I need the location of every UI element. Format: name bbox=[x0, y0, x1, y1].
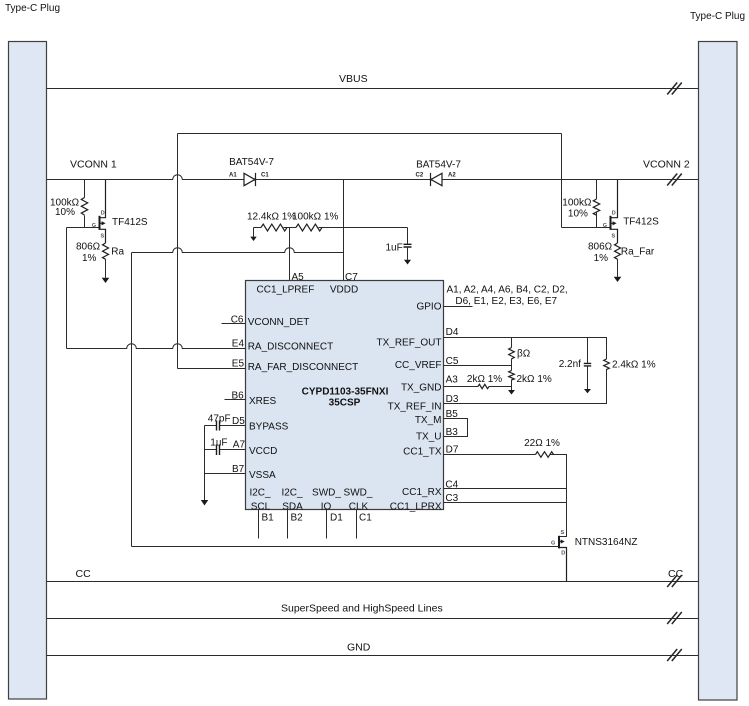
svg-text:GPIO: GPIO bbox=[416, 302, 441, 313]
svg-text:47pF: 47pF bbox=[208, 414, 231, 425]
svg-text:BAT54V-7: BAT54V-7 bbox=[229, 157, 274, 168]
svg-text:TX_REF_OUT: TX_REF_OUT bbox=[376, 337, 441, 348]
svg-text:C1: C1 bbox=[359, 513, 372, 524]
svg-text:D: D bbox=[561, 551, 565, 557]
svg-text:1uF: 1uF bbox=[210, 438, 227, 449]
svg-text:G: G bbox=[92, 223, 96, 229]
svg-text:VCONN 2: VCONN 2 bbox=[643, 159, 690, 171]
svg-text:A5: A5 bbox=[292, 272, 305, 283]
svg-text:A7: A7 bbox=[233, 440, 246, 451]
svg-text:D: D bbox=[101, 210, 105, 216]
svg-text:C6: C6 bbox=[231, 314, 244, 325]
svg-text:TF412S: TF412S bbox=[112, 217, 148, 228]
svg-text:C2: C2 bbox=[416, 173, 424, 179]
svg-text:I2C_: I2C_ bbox=[249, 488, 271, 499]
svg-text:TX_U: TX_U bbox=[416, 432, 442, 443]
svg-text:22Ω 1%: 22Ω 1% bbox=[524, 438, 560, 449]
svg-text:TX_GND: TX_GND bbox=[401, 383, 442, 394]
svg-text:D3: D3 bbox=[446, 394, 459, 405]
svg-text:100kΩ: 100kΩ bbox=[562, 198, 592, 209]
svg-text:G: G bbox=[551, 540, 555, 546]
svg-text:CC1_LPREF: CC1_LPREF bbox=[257, 284, 315, 295]
svg-text:35CSP: 35CSP bbox=[329, 397, 361, 408]
svg-text:C3: C3 bbox=[445, 493, 458, 504]
svg-text:SWD_: SWD_ bbox=[344, 488, 373, 499]
svg-text:SDA: SDA bbox=[282, 501, 303, 512]
svg-text:B3: B3 bbox=[446, 427, 459, 438]
svg-text:Type-C Plug: Type-C Plug bbox=[5, 3, 60, 14]
svg-text:D5: D5 bbox=[232, 416, 245, 427]
svg-text:D7: D7 bbox=[446, 445, 459, 456]
svg-text:RA_DISCONNECT: RA_DISCONNECT bbox=[248, 342, 334, 353]
svg-text:C4: C4 bbox=[445, 480, 458, 491]
svg-text:VCONN_DET: VCONN_DET bbox=[248, 317, 310, 328]
svg-text:CYPD1103-35FNXI: CYPD1103-35FNXI bbox=[302, 386, 389, 397]
svg-text:B7: B7 bbox=[232, 464, 245, 475]
svg-text:2.2nf: 2.2nf bbox=[559, 359, 581, 370]
svg-text:BAT54V-7: BAT54V-7 bbox=[416, 159, 461, 170]
svg-text:Ra_Far: Ra_Far bbox=[621, 247, 655, 258]
svg-text:12.4kΩ 1%: 12.4kΩ 1% bbox=[247, 212, 296, 223]
svg-text:B5: B5 bbox=[446, 409, 459, 420]
svg-text:VSSA: VSSA bbox=[249, 470, 276, 481]
svg-text:10%: 10% bbox=[568, 209, 588, 220]
svg-text:SCL: SCL bbox=[251, 501, 271, 512]
svg-text:D: D bbox=[612, 210, 616, 216]
svg-text:XRES: XRES bbox=[249, 396, 277, 407]
svg-text:A1, A2, A4, A6, B4, C2, D2,: A1, A2, A4, A6, B4, C2, D2, bbox=[447, 285, 568, 296]
svg-text:CC1_LPRX: CC1_LPRX bbox=[390, 501, 442, 512]
svg-text:A3: A3 bbox=[446, 374, 459, 385]
svg-text:IO: IO bbox=[321, 501, 332, 512]
svg-text:10%: 10% bbox=[55, 207, 75, 218]
svg-text:S: S bbox=[101, 234, 105, 240]
svg-text:C1: C1 bbox=[261, 173, 269, 179]
svg-text:CLK: CLK bbox=[349, 501, 369, 512]
svg-text:S: S bbox=[561, 530, 565, 536]
svg-text:D4: D4 bbox=[446, 327, 459, 338]
svg-text:TX_M: TX_M bbox=[415, 415, 442, 426]
svg-text:CC: CC bbox=[76, 568, 92, 580]
svg-text:BYPASS: BYPASS bbox=[249, 422, 289, 433]
svg-text:RA_FAR_DISCONNECT: RA_FAR_DISCONNECT bbox=[248, 362, 359, 373]
svg-text:SuperSpeed and HighSpeed Lines: SuperSpeed and HighSpeed Lines bbox=[281, 603, 443, 615]
svg-text:S: S bbox=[612, 234, 616, 240]
svg-text:Type-C Plug: Type-C Plug bbox=[690, 11, 745, 22]
svg-text:D6, E1, E2, E3, E6, E7: D6, E1, E2, E3, E6, E7 bbox=[455, 296, 557, 307]
svg-text:A1: A1 bbox=[229, 173, 237, 179]
svg-text:VDDD: VDDD bbox=[330, 284, 358, 295]
svg-text:806Ω: 806Ω bbox=[76, 241, 101, 252]
svg-text:100kΩ 1%: 100kΩ 1% bbox=[292, 212, 339, 223]
svg-text:B2: B2 bbox=[291, 513, 304, 524]
svg-text:CC_VREF: CC_VREF bbox=[395, 360, 442, 371]
svg-text:2kΩ 1%: 2kΩ 1% bbox=[517, 374, 552, 385]
svg-text:806Ω: 806Ω bbox=[588, 241, 613, 252]
svg-text:I2C_: I2C_ bbox=[281, 488, 303, 499]
svg-text:E4: E4 bbox=[232, 338, 245, 349]
svg-text:C7: C7 bbox=[345, 272, 358, 283]
svg-text:TF412S: TF412S bbox=[623, 217, 659, 228]
svg-text:A2: A2 bbox=[448, 173, 456, 179]
svg-text:2kΩ 1%: 2kΩ 1% bbox=[467, 374, 502, 385]
svg-text:1uF: 1uF bbox=[386, 243, 403, 254]
svg-text:GND: GND bbox=[347, 642, 371, 654]
svg-text:Ra: Ra bbox=[111, 247, 124, 258]
svg-text:VCCD: VCCD bbox=[249, 446, 277, 457]
svg-text:G: G bbox=[603, 223, 607, 229]
svg-text:CC1_TX: CC1_TX bbox=[403, 447, 442, 458]
svg-text:VCONN 1: VCONN 1 bbox=[70, 159, 117, 171]
svg-text:1%: 1% bbox=[82, 253, 97, 264]
svg-text:CC: CC bbox=[668, 568, 684, 580]
svg-text:B6: B6 bbox=[232, 390, 245, 401]
svg-text:2.4kΩ 1%: 2.4kΩ 1% bbox=[612, 360, 656, 371]
svg-text:CC1_RX: CC1_RX bbox=[402, 487, 442, 498]
svg-text:B1: B1 bbox=[262, 513, 275, 524]
svg-text:1%: 1% bbox=[594, 253, 609, 264]
svg-text:E5: E5 bbox=[232, 358, 245, 369]
svg-text:C5: C5 bbox=[446, 356, 459, 367]
svg-text:TX_REF_IN: TX_REF_IN bbox=[388, 402, 442, 413]
svg-text:βΩ: βΩ bbox=[517, 349, 531, 360]
svg-text:NTNS3164NZ: NTNS3164NZ bbox=[575, 537, 638, 548]
svg-text:VBUS: VBUS bbox=[339, 73, 368, 85]
svg-text:SWD_: SWD_ bbox=[312, 488, 341, 499]
svg-text:D1: D1 bbox=[330, 513, 343, 524]
